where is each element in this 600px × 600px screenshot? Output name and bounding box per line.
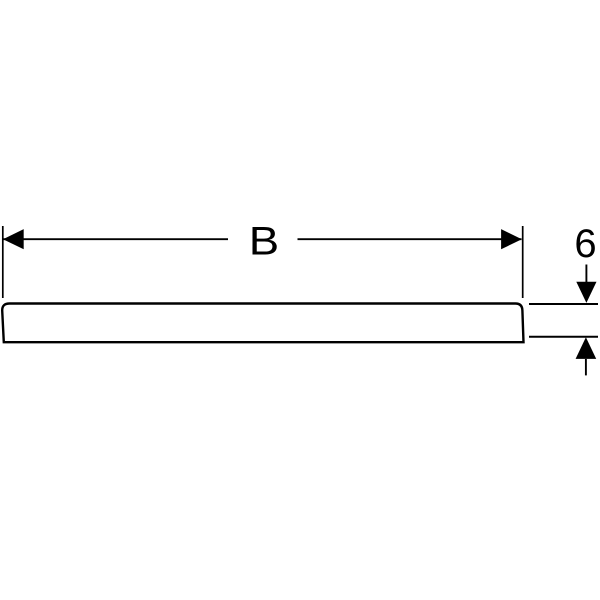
- dimension B: left arrowhead: [3, 229, 24, 249]
- svg-text:6: 6: [574, 222, 596, 266]
- dimension 6: up arrow tail: [585, 359, 587, 376]
- dimension 6: down arrow tail: [585, 265, 587, 284]
- dimension 6: up arrowhead: [576, 337, 597, 359]
- dimension B: right extension line: [522, 226, 524, 298]
- shower tray cross-section profile: [2, 304, 523, 343]
- dimension B: line left segment: [3, 238, 228, 240]
- dimension B: right arrowhead: [501, 229, 522, 249]
- dimension B: left extension line: [2, 226, 4, 298]
- dimension B: line right segment: [298, 238, 522, 240]
- dimension 6: lower leader line: [529, 336, 598, 338]
- label B: [249, 219, 279, 264]
- svg-text:B: B: [249, 219, 279, 264]
- dimension 6: upper leader line: [529, 303, 598, 305]
- dimension 6: down arrowhead: [576, 282, 596, 303]
